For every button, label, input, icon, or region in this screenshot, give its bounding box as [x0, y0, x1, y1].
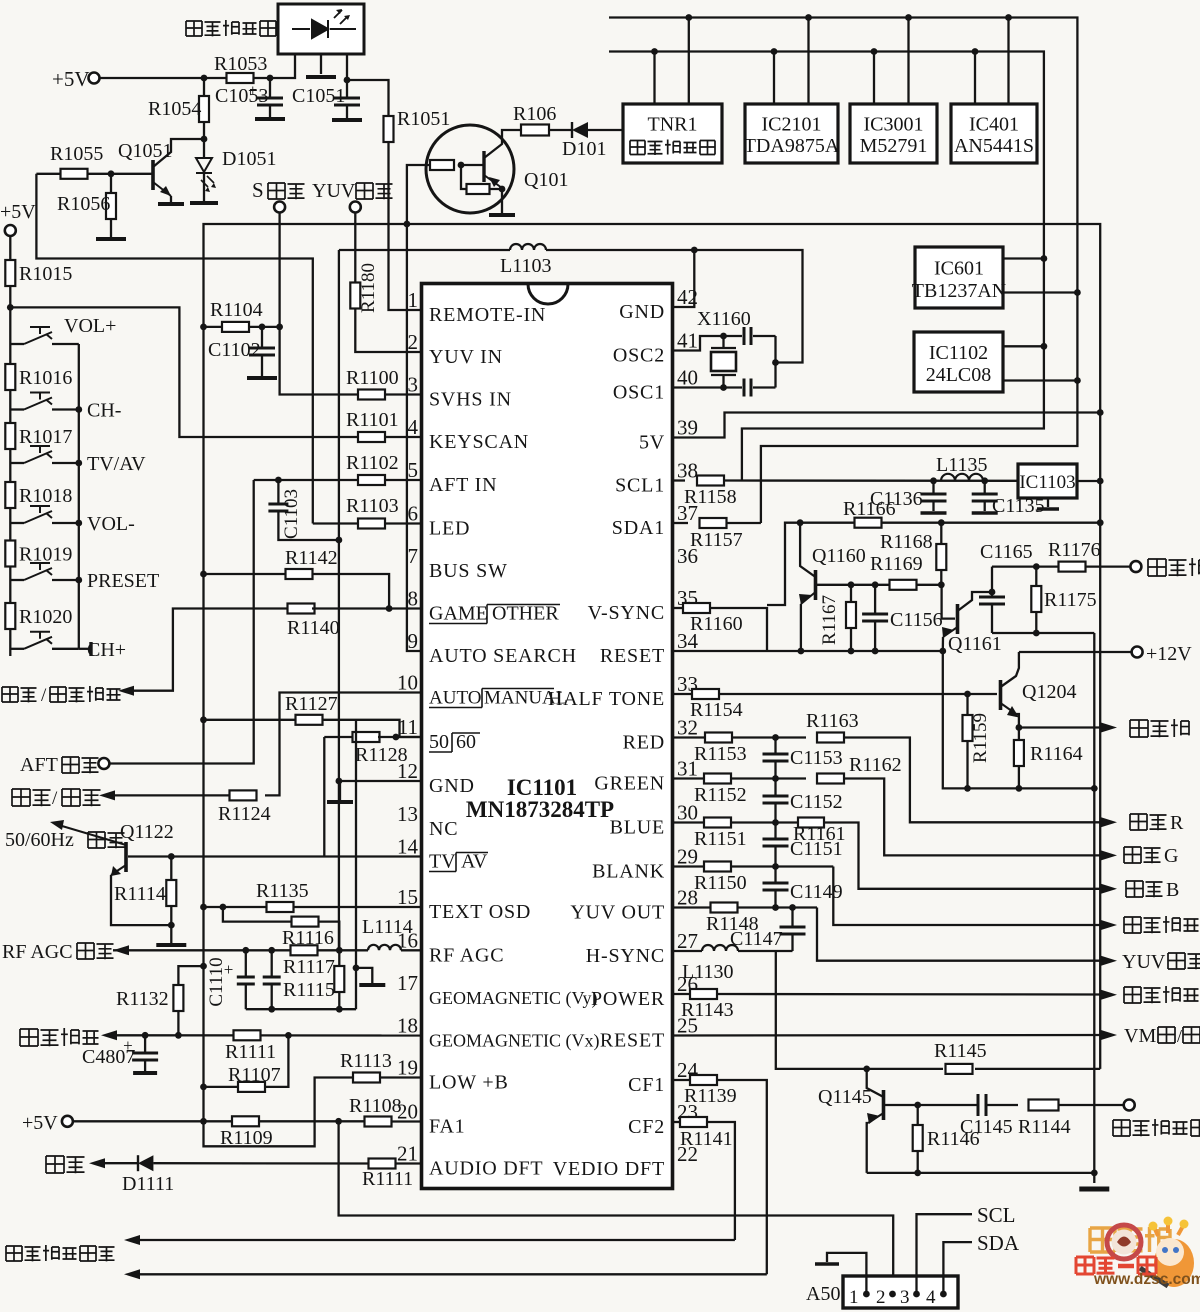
svg-text:VEDIO DFT: VEDIO DFT: [553, 1158, 665, 1180]
Q1160 base line: [817, 584, 890, 586]
AFT IN line + resistor R1102: [254, 479, 358, 481]
svg-text:AFT: AFT: [20, 754, 58, 776]
svg-text:+5V: +5V: [0, 201, 36, 223]
svg-text:D1051: D1051: [222, 148, 276, 170]
resistor R1144: [1029, 1100, 1059, 1111]
resistor R1104: [204, 326, 223, 328]
wire AUTO SEARCH pin9 to 5V bus: [407, 224, 422, 651]
crystal cap bottom: [724, 386, 743, 388]
svg-text:VOL-: VOL-: [87, 513, 135, 535]
switch VOL-: [10, 522, 24, 524]
Q1122 base line to pin14: [128, 855, 422, 857]
svg-text:R1142: R1142: [285, 547, 338, 569]
wire FA1 node down to A50 5V line: [339, 1121, 894, 1294]
svg-text:R1117: R1117: [283, 956, 335, 978]
LED line + resistor R1103: [313, 522, 358, 524]
svg-text:YUV OUT: YUV OUT: [570, 902, 665, 924]
svg-text:L1114: L1114: [362, 916, 413, 938]
svg-text:Q1122: Q1122: [120, 821, 174, 843]
svg-text:9: 9: [408, 629, 419, 653]
svg-text:18: 18: [397, 1014, 418, 1038]
svg-text:R1124: R1124: [218, 803, 271, 825]
svg-text:IC1103: IC1103: [1019, 472, 1075, 493]
svg-text:2: 2: [408, 330, 419, 354]
svg-text:Q1160: Q1160: [812, 545, 866, 567]
svg-text:B: B: [1166, 879, 1179, 901]
svg-text:50/60Hz: 50/60Hz: [5, 829, 74, 851]
BLUE pin30 line: R1151, R1161: [673, 821, 705, 823]
resistor R1015: [9, 236, 11, 260]
capacitor C1145: [978, 1094, 986, 1116]
svg-text:GEOMAGNETIC (Vy): GEOMAGNETIC (Vy): [429, 988, 597, 1009]
svg-text:+5V: +5V: [22, 1112, 58, 1134]
capacitor C1110 electrolytic: [245, 950, 247, 976]
svg-text:C1156: C1156: [890, 609, 943, 631]
V-SYNC line + resistor R1160: [673, 607, 684, 609]
wire R1053 to IR box, C1051: [253, 54, 295, 78]
capacitor C1147: [791, 908, 793, 927]
block IC1102 24LC08: [914, 332, 1003, 392]
svg-text:4: 4: [926, 1287, 936, 1308]
svg-text:C1149: C1149: [790, 881, 843, 903]
伴音 line 1 (from CF2): [124, 1235, 140, 1245]
wire R1051 down to pin1 REMOTE-IN: [389, 142, 422, 310]
svg-text:IC601: IC601: [934, 258, 984, 280]
capacitor C1152: [774, 779, 776, 796]
inductor L1103: [510, 244, 546, 250]
capacitor C1136: [932, 481, 934, 493]
svg-text:IC2101: IC2101: [762, 114, 822, 136]
resistor R1108: [365, 1117, 392, 1127]
wire keypad node to KEYSCAN (R1101): [10, 307, 358, 437]
svg-text:R1159: R1159: [970, 713, 991, 763]
svg-text:C1165: C1165: [980, 541, 1033, 563]
svg-text:OSC2: OSC2: [613, 345, 665, 367]
svg-text:www.dzsc.com: www.dzsc.com: [1093, 1271, 1200, 1288]
CF2 pin23 line: R1141: [673, 1121, 681, 1123]
resistor R1100 (SVHS): [358, 390, 385, 400]
switch CH+: [10, 648, 24, 650]
capacitor C1051: [346, 80, 348, 97]
svg-text:R1153: R1153: [694, 743, 747, 765]
resistor R1124: [230, 790, 257, 800]
wire IR box mid pin to ground: [320, 54, 322, 74]
resistor R1053: [227, 73, 254, 83]
svg-text:R1166: R1166: [843, 498, 896, 520]
svg-text:R1017: R1017: [19, 426, 72, 448]
IC1103 ground: [1047, 498, 1049, 507]
svg-text:R1157: R1157: [690, 529, 743, 551]
svg-text:R1051: R1051: [397, 108, 450, 130]
svg-text:GEOMAGNETIC (Vx): GEOMAGNETIC (Vx): [429, 1031, 599, 1052]
svg-text:BLANK: BLANK: [592, 861, 665, 883]
resistor R1167: [850, 585, 852, 602]
wire GND pin42 up to L1103 line: [673, 250, 695, 307]
svg-text:A50: A50: [806, 1283, 840, 1305]
svg-text:S: S: [252, 178, 264, 202]
Q1145 collector line: [884, 1104, 978, 1106]
svg-text:REMOTE-IN: REMOTE-IN: [429, 304, 546, 326]
svg-text:GND: GND: [429, 775, 475, 797]
svg-text:IC3001: IC3001: [864, 114, 924, 136]
svg-text:X1160: X1160: [697, 308, 751, 330]
svg-text:D101: D101: [562, 138, 606, 160]
capacitor C1110b: [271, 950, 273, 976]
switch TV/AV: [10, 462, 24, 464]
svg-text:V-SYNC: V-SYNC: [588, 602, 665, 624]
RED pin32 line: R1153, R1163: [673, 736, 706, 738]
svg-text:R1054: R1054: [148, 98, 201, 120]
svg-text:AFT IN: AFT IN: [429, 474, 497, 496]
inductor L1135: [941, 474, 983, 481]
Q1122 emitter to R1114 bottom: [111, 875, 171, 925]
svg-text:C1102: C1102: [208, 339, 261, 361]
svg-text:R1140: R1140: [287, 617, 340, 639]
resistor R1111 (AUDIO DFT): [369, 1159, 396, 1169]
wire R1055 left down to LED bus: [36, 174, 312, 524]
svg-text:R1015: R1015: [19, 263, 72, 285]
IC1102 wires to rails: [1003, 345, 1044, 347]
svg-text:R1016: R1016: [19, 367, 72, 389]
capacitor C1053 (electrolytic): [269, 78, 271, 97]
label 游戏/其他控制: [2, 687, 18, 702]
svg-text:+12V: +12V: [1146, 643, 1192, 665]
box pin wires IC3001: [873, 52, 875, 105]
CF1 pin24 line: R1139: [673, 1079, 691, 1081]
switch PRESET: [10, 579, 24, 581]
svg-text:5: 5: [408, 458, 419, 482]
地磁校正 line: [111, 1034, 422, 1036]
svg-text:R1102: R1102: [346, 452, 399, 474]
svg-text:19: 19: [397, 1056, 418, 1080]
switch CH-: [10, 408, 24, 410]
transistor Q101 (circle): [426, 125, 514, 213]
resistor R1140 (GAME line): [288, 604, 315, 614]
svg-text:10: 10: [397, 671, 418, 695]
wire GAME/OTHER to label: [132, 609, 290, 691]
capacitor C1149: [774, 867, 776, 883]
svg-text:C1151: C1151: [790, 838, 843, 860]
svg-text:13: 13: [397, 802, 418, 826]
svg-text:AV: AV: [461, 851, 488, 873]
svg-text:TDA9875A: TDA9875A: [744, 135, 840, 157]
svg-text:R1019: R1019: [19, 544, 72, 566]
capacitor C4807: [144, 1035, 146, 1052]
resistor R1116: [223, 907, 292, 922]
capacitor C1156: [874, 585, 876, 613]
resistor R1180: [350, 283, 360, 309]
svg-text:R1135: R1135: [256, 880, 309, 902]
svg-text:R1132: R1132: [116, 988, 169, 1010]
svg-text:C1152: C1152: [790, 791, 843, 813]
IC601 wires to rails: [1003, 257, 1044, 259]
block IC2101 TDA9875A: [745, 104, 838, 163]
svg-text:GND: GND: [619, 301, 665, 323]
伴音 line 2 (from CF1): [124, 1269, 140, 1279]
wire S识别 down to R1104: [280, 213, 358, 395]
svg-text:SDA1: SDA1: [612, 517, 665, 539]
svg-text:R1104: R1104: [210, 299, 263, 321]
svg-text:R: R: [1170, 812, 1184, 834]
resistor R1051: [384, 116, 394, 142]
svg-text:7: 7: [408, 544, 419, 568]
ground at CH+: [79, 648, 91, 650]
svg-text:R1145: R1145: [934, 1040, 987, 1062]
svg-text:R1164: R1164: [1030, 743, 1083, 765]
resistor R1114: [170, 857, 172, 881]
svg-text:IC1102: IC1102: [929, 342, 988, 364]
resistor R1016: [5, 364, 15, 390]
svg-text:LED: LED: [429, 518, 470, 540]
svg-text:R1111: R1111: [225, 1041, 276, 1063]
svg-text:TB1237AN: TB1237AN: [912, 280, 1006, 302]
block IC401 AN5441S: [951, 104, 1037, 163]
switch common vertical: [78, 344, 80, 649]
label 地磁校正: [20, 1029, 38, 1046]
svg-text:R1020: R1020: [19, 606, 72, 628]
YUV OUT pin28 line: R1148: [673, 906, 711, 908]
svg-text:R1152: R1152: [694, 784, 747, 806]
svg-text:SCL: SCL: [977, 1203, 1016, 1227]
svg-text:R1103: R1103: [346, 495, 399, 517]
svg-text:Q101: Q101: [524, 169, 568, 191]
resistor R1019: [5, 541, 15, 567]
svg-text:R1111: R1111: [362, 1168, 413, 1190]
HALF TONE line + resistor R1154: [673, 693, 693, 695]
svg-text:R1146: R1146: [927, 1128, 980, 1150]
svg-text:R1143: R1143: [681, 999, 734, 1021]
svg-text:C1103: C1103: [281, 489, 302, 539]
svg-text:6: 6: [408, 502, 419, 526]
YUV识别 bus down through R1180 to pin2: [354, 213, 356, 284]
svg-text:NC: NC: [429, 818, 458, 840]
node R1054/D1051/Q1051: [201, 136, 208, 143]
block IC3001 M52791: [850, 104, 937, 163]
resistor R1017: [5, 423, 15, 449]
svg-text:11: 11: [398, 715, 418, 739]
svg-text:CH-: CH-: [87, 400, 121, 422]
svg-text:YUV IN: YUV IN: [429, 346, 503, 368]
capacitor C1153: [774, 738, 776, 754]
svg-text:3: 3: [408, 373, 419, 397]
svg-text:R1107: R1107: [228, 1064, 281, 1086]
svg-text:R1127: R1127: [285, 693, 338, 715]
svg-text:39: 39: [677, 416, 698, 440]
svg-text:SCL1: SCL1: [615, 475, 665, 497]
svg-text:27: 27: [677, 929, 698, 953]
RF AGC line: [113, 949, 345, 951]
label 伴音制式控制: [6, 1246, 22, 1261]
svg-text:Q1145: Q1145: [818, 1086, 872, 1108]
svg-text:R1163: R1163: [806, 710, 859, 732]
svg-text:R1180: R1180: [358, 263, 379, 313]
capacitor C1102: [261, 327, 263, 347]
wire +5V to R1053: [100, 77, 228, 79]
svg-text:BUS SW: BUS SW: [429, 560, 508, 582]
resistor R1135 (TEXT OSD line): [200, 904, 207, 911]
svg-text:R1150: R1150: [694, 872, 747, 894]
resistor R1056: [110, 174, 112, 193]
watermark 找芯片 magnifier logo: [1076, 1217, 1200, 1289]
label 字符B: [1126, 881, 1143, 897]
svg-text:C1110: C1110: [206, 957, 227, 1006]
svg-text:PRESET: PRESET: [87, 570, 159, 592]
svg-text:R106: R106: [513, 103, 556, 125]
svg-text:FA1: FA1: [429, 1116, 465, 1138]
crystal cap top: [724, 335, 743, 337]
resistor R1169: [890, 580, 917, 590]
svg-text:R1169: R1169: [870, 553, 923, 575]
svg-text:D1111: D1111: [122, 1173, 174, 1195]
svg-text:C4807: C4807: [82, 1046, 135, 1068]
SCL1 line: R1158 + to IC1103: [673, 479, 686, 481]
label 待机控制: [1124, 987, 1141, 1003]
svg-text:LOW +B: LOW +B: [429, 1072, 509, 1094]
BLANK pin29 line: R1150: [673, 865, 705, 867]
resistor R1020: [5, 603, 15, 629]
svg-text:L1103: L1103: [500, 255, 551, 277]
connector A50: [843, 1276, 958, 1308]
block IC1103: [1018, 464, 1077, 498]
wire AFT input up to AFT IN line: [109, 480, 253, 764]
resistor R1146: [917, 1105, 919, 1125]
R1175/C1165 bottom rail: [992, 632, 1094, 634]
svg-text:24LC08: 24LC08: [926, 364, 992, 386]
svg-text:R1055: R1055: [50, 143, 103, 165]
wire R1055 to Q1051 base: [87, 173, 152, 175]
resistor R1159: [966, 694, 968, 715]
label 行逆程脉冲: [1113, 1120, 1130, 1136]
svg-text:C1051: C1051: [292, 85, 345, 107]
IC1101 main body MN1873284TP: [422, 284, 673, 1189]
svg-text:4: 4: [408, 415, 419, 439]
svg-text:SDA: SDA: [977, 1231, 1020, 1255]
svg-text:BLUE: BLUE: [610, 817, 665, 839]
LED D1051: [203, 139, 205, 157]
svg-text:HALF TONE: HALF TONE: [548, 688, 665, 710]
box pin wires TNR1: [653, 52, 655, 105]
svg-text:R1101: R1101: [346, 409, 399, 431]
RESET pin25 line to VM: [673, 1034, 1104, 1037]
wire R1128 left down to TV/AV line: [323, 737, 325, 857]
svg-text:TEXT OSD: TEXT OSD: [429, 901, 531, 923]
svg-text:R1053: R1053: [214, 53, 267, 75]
svg-text:R1168: R1168: [880, 531, 933, 553]
5V pin39 wire to right rail: [673, 413, 1101, 438]
ground rail under RF network: [246, 1008, 356, 1010]
switch VOL+: [10, 343, 24, 345]
svg-text:CH+: CH+: [87, 639, 126, 661]
svg-text:SVHS IN: SVHS IN: [429, 389, 512, 411]
ground stub: [353, 965, 360, 972]
long vertical to ground (right): [1093, 633, 1095, 1183]
A50 pin4 to SDA: [943, 1242, 972, 1294]
svg-text:Q1204: Q1204: [1022, 681, 1076, 703]
wire Q101 base to 5V frame: [407, 165, 430, 224]
svg-text:GREEN: GREEN: [594, 773, 665, 795]
svg-text:R1176: R1176: [1048, 539, 1101, 561]
svg-text:2: 2: [876, 1287, 886, 1308]
svg-text:R1175: R1175: [1044, 589, 1097, 611]
svg-text:RESET: RESET: [600, 645, 665, 667]
svg-text:1: 1: [408, 288, 419, 312]
svg-text:AUTO SEARCH: AUTO SEARCH: [429, 645, 577, 667]
diode D101: [549, 129, 571, 131]
resistor R1054: [203, 78, 205, 96]
GREEN pin31 line: R1152, R1162: [673, 777, 705, 779]
POWER pin26 line: R1143: [673, 993, 691, 995]
svg-text:R1056: R1056: [57, 193, 110, 215]
svg-text:R1167: R1167: [819, 595, 840, 645]
SDA1 line: R1157: [673, 522, 689, 524]
svg-text:CF1: CF1: [628, 1074, 665, 1096]
GND pin12 wire + ground: [339, 780, 422, 782]
resistor R1115: [338, 950, 340, 966]
svg-text:YUV: YUV: [1122, 951, 1166, 973]
svg-text:1: 1: [849, 1287, 859, 1308]
V-SYNC riser to R1166 node: [767, 523, 800, 605]
场脉冲 line + R1176: [992, 565, 1059, 567]
resistor R1128: [324, 736, 354, 738]
svg-text:R1113: R1113: [340, 1050, 392, 1072]
resistor R1107: [200, 1084, 207, 1091]
AUTO/MANUAL wire (pin10): [265, 693, 422, 796]
svg-text:C1053: C1053: [215, 85, 268, 107]
svg-text:TV/AV: TV/AV: [87, 453, 146, 475]
svg-text:5V: 5V: [639, 432, 665, 454]
resistor R1164: [1018, 728, 1020, 741]
resistor R1111 (pin18 line): [234, 1030, 261, 1040]
inductor L1114: [345, 949, 368, 951]
box pin wires IC2101: [773, 52, 775, 105]
resistor R1168: [940, 523, 942, 544]
Q1145 ground rail: [867, 1172, 1095, 1174]
svg-text:RF AGC: RF AGC: [429, 945, 504, 967]
label 字符G: [1124, 847, 1141, 863]
watermark 维库一下: [1076, 1257, 1094, 1274]
capacitor C1151: [774, 823, 776, 839]
+12V line (Q1204 collector): [1019, 651, 1132, 653]
svg-text:+5V: +5V: [52, 67, 90, 91]
svg-text:R1139: R1139: [684, 1085, 737, 1107]
IR receiver box: [278, 4, 364, 54]
svg-text:AUDIO DFT: AUDIO DFT: [429, 1158, 543, 1180]
svg-text:40: 40: [677, 366, 698, 390]
wire IR box right pin down to C1051/R1051: [347, 54, 389, 117]
label 自动/人工: [12, 789, 30, 806]
label 中高频组件: [630, 141, 645, 155]
SDA top rail (to box pins): [609, 18, 1077, 524]
svg-text:KEYSCAN: KEYSCAN: [429, 431, 529, 453]
ground bus / L1103 line: [339, 249, 510, 251]
svg-text:R1100: R1100: [346, 367, 399, 389]
svg-text:15: 15: [397, 885, 418, 909]
svg-text:R1115: R1115: [283, 979, 335, 1001]
svg-text:R1154: R1154: [690, 699, 743, 721]
label 字符消隐: [1124, 917, 1141, 933]
resistor R106: [521, 129, 523, 131]
R1145 line from 5V rail: [975, 1068, 1100, 1070]
svg-text:VM: VM: [1124, 1025, 1156, 1047]
svg-text:VOL+: VOL+: [64, 315, 116, 337]
keypad ladder main wire: [9, 286, 11, 656]
svg-text:14: 14: [397, 835, 419, 859]
svg-text:MN1873284TP: MN1873284TP: [466, 797, 614, 822]
label 字符R: [1130, 814, 1147, 830]
svg-text:RESET: RESET: [600, 1030, 665, 1052]
capacitor C1165: [991, 592, 993, 596]
svg-text:G: G: [1164, 845, 1178, 867]
